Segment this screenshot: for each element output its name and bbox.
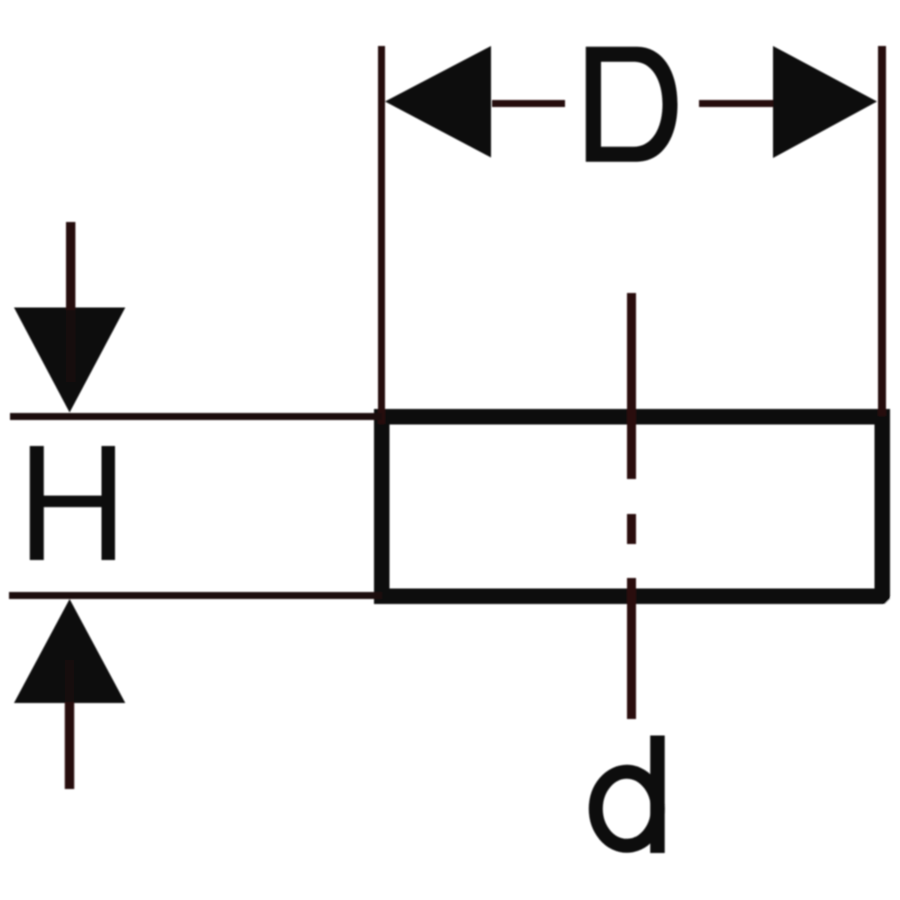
label d [596,736,665,854]
H dimension: upper arrowhead (points down) [14,308,125,413]
D dimension: right arrowhead [773,46,877,158]
H dimension: upper arrow tail [66,222,75,310]
centre line: upper long dash [627,293,636,479]
H dimension: lower arrowhead (points up) [14,599,125,703]
H dimension: lower arrow tail [65,702,74,789]
D dimension: left arrowhead [385,46,491,158]
centre line: lower long dash [627,578,636,719]
part outline: bottom-right corner chamfer [884,597,892,605]
part outline: gasket cross-section rectangle [382,417,883,597]
centre line: short dash [627,514,636,544]
D dimension line: left segment [492,100,565,107]
D dimension: left extension line [378,46,385,424]
H dimension: upper arrow tail overlap streak [66,310,75,382]
D dimension line: right segment [699,100,773,107]
H dimension: bottom reference line [9,592,382,599]
H dimension: lower arrow tail overlap streak [65,660,74,702]
D dimension: right extension line [878,46,886,416]
label D [586,47,678,162]
label H [30,446,115,560]
H dimension: top reference line [10,413,382,420]
